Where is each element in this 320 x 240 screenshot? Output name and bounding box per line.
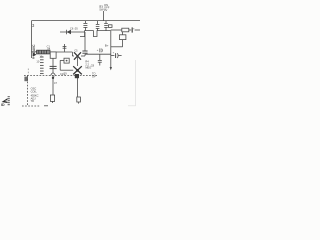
logo fine print column — [8, 96, 10, 105]
resistor R7 (rail to bus) — [105, 21, 107, 24]
svg-text:ID: ID — [1, 103, 5, 107]
battery symbol right — [131, 27, 133, 32]
wire mid right — [85, 53, 111, 55]
speaker box SP1 — [122, 28, 129, 32]
wire top supply rail — [32, 20, 141, 22]
resistor R2 — [50, 95, 54, 101]
transistor bus wire — [80, 31, 111, 37]
svg-text:B+: B+ — [105, 43, 109, 47]
wire center drop — [52, 58, 54, 73]
capacitor C10 (electrolytic right) — [111, 55, 115, 57]
wire gang drop — [77, 74, 79, 97]
antenna L1 (loop antenna bars) — [40, 57, 44, 74]
oscillator box B2 — [64, 58, 69, 63]
ground (right arrow blob) — [110, 67, 112, 70]
svg-text:C6 .05: C6 .05 — [70, 26, 78, 30]
battery B+ lead — [122, 32, 124, 35]
variable capacitor C3a (upper gang X) — [74, 52, 81, 59]
wire faint stub above shield corner — [27, 69, 29, 76]
capacitor C5 (to mid wire) — [84, 32, 86, 51]
transformer T1 (IF can box) — [50, 52, 56, 58]
node AVC arrow — [33, 53, 36, 57]
shield dashed top — [24, 74, 97, 76]
resistor R3 — [77, 97, 81, 102]
svg-text:SP: SP — [92, 75, 96, 79]
resistor R5 (rail to bus) — [84, 21, 86, 24]
node junction on dashed — [75, 74, 79, 78]
resistor R6 (rail to bus) — [97, 21, 99, 25]
logo glyph (angular mark) — [2, 98, 8, 103]
wire output to edge — [111, 29, 122, 31]
capacitor C7 hang — [99, 54, 101, 60]
switch S1 lead to battery — [103, 11, 105, 21]
capacitor C4 plates — [50, 65, 57, 67]
wire main signal y52 — [32, 51, 51, 53]
battery BT1 box — [120, 35, 126, 40]
svg-text:C8: C8 — [91, 64, 95, 68]
svg-text:.05: .05 — [47, 47, 51, 51]
diode D1 — [60, 31, 85, 33]
wire right vertical — [110, 31, 112, 68]
svg-text:9V: 9V — [104, 8, 107, 12]
shield dashed left — [27, 75, 29, 105]
node corner blob — [24, 77, 28, 82]
faint page edge — [135, 60, 137, 106]
wire from T1 right — [56, 51, 72, 53]
wire lower X leads — [70, 69, 73, 71]
resistor R1 — [37, 50, 50, 54]
variable capacitor C3b (lower gang X) — [73, 66, 82, 74]
svg-text:C14: C14 — [60, 72, 65, 76]
wire left frame vertical — [31, 21, 33, 58]
wire X right lead — [81, 55, 85, 57]
shield dashed bottom — [22, 105, 40, 107]
node junction dot — [76, 69, 79, 72]
trimmer capacitor C2 — [64, 44, 66, 52]
resistor R10 (small box under rail) — [108, 25, 112, 28]
svg-text:TR: TR — [31, 99, 35, 103]
svg-text:COIL: COIL — [31, 89, 38, 93]
